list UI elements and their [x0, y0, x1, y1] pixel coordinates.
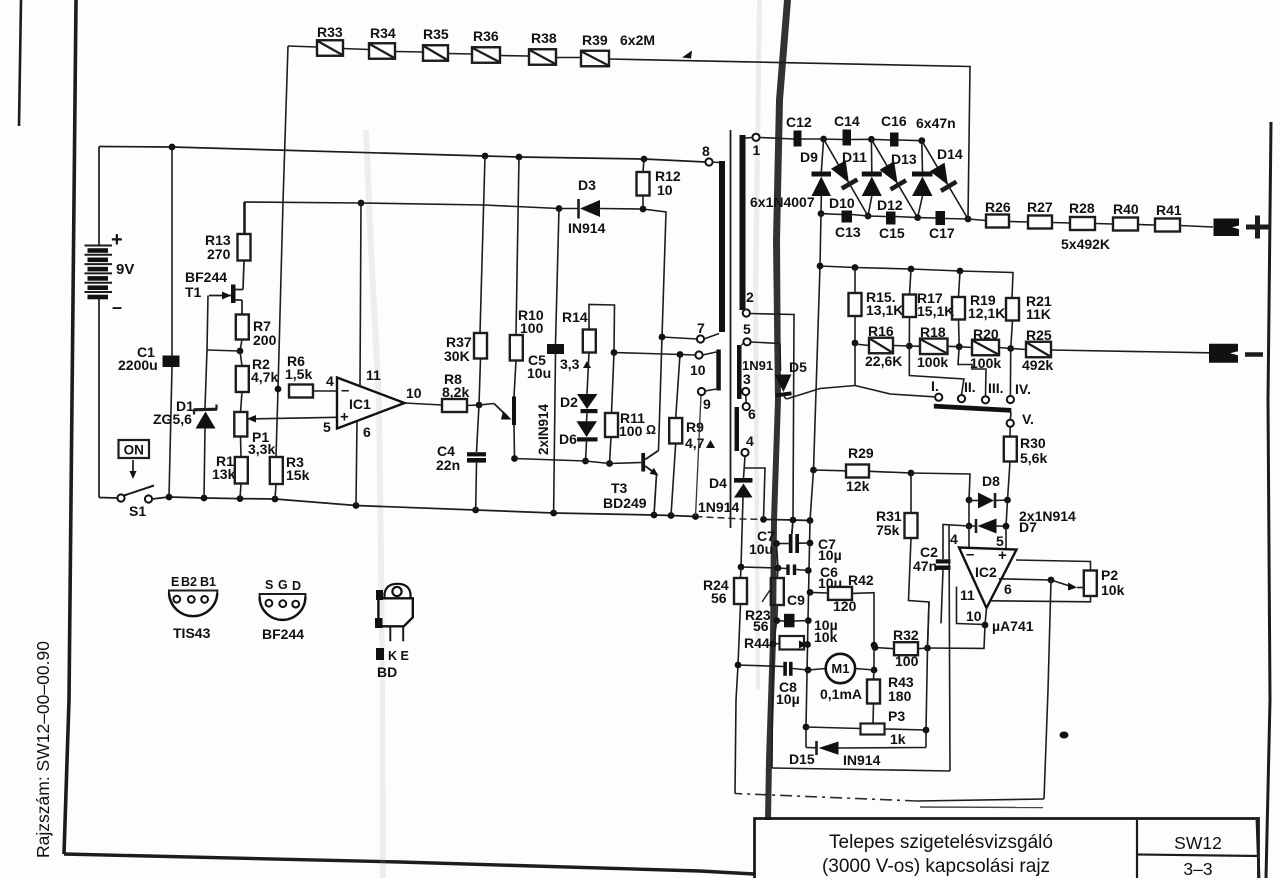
diode D2: [577, 353, 598, 414]
resistor R9 4,7: [669, 355, 715, 516]
diode D13 (diagonal): [871, 139, 917, 217]
D15 label: [789, 751, 881, 768]
potentiometer P3 1k: [861, 708, 906, 747]
pin 8: [702, 143, 713, 166]
node rail P3: [803, 724, 810, 731]
title text line 2: [822, 856, 1050, 877]
resistor R38: [500, 30, 557, 65]
wire battery- down: [98, 297, 100, 498]
svg-text:M1: M1: [831, 661, 849, 676]
C1 label: [118, 344, 158, 373]
svg-text:R25: R25: [1026, 327, 1052, 343]
svg-text:6x2M: 6x2M: [620, 32, 655, 48]
node bus R9: [668, 512, 675, 519]
svg-text:R20: R20: [973, 326, 999, 342]
potentiometer P1 3,3k: [234, 392, 337, 457]
svg-text:6x1N4007: 6x1N4007: [750, 194, 815, 210]
diode D15 IN914: [817, 741, 927, 755]
resistor R3 15k: [270, 454, 310, 499]
resistor R16 22,6K: [855, 323, 902, 369]
- output terminal: [1209, 344, 1238, 363]
svg-text:3: 3: [743, 371, 751, 387]
wire IC2 pin6: [999, 577, 1054, 584]
resistor R39: [556, 32, 609, 66]
resistor R43 180: [867, 670, 914, 724]
svg-text:D14: D14: [937, 146, 963, 162]
svg-text:6x47n: 6x47n: [916, 115, 956, 131]
wire R29 to junction: [869, 471, 911, 473]
diode D10 (vertical): [862, 139, 882, 216]
node R32 right: [924, 645, 931, 652]
wire ground bus: [152, 497, 696, 517]
D11 label: [842, 149, 867, 165]
node B3: [945, 216, 971, 223]
resistor R23 56: [745, 578, 784, 634]
node rail R29: [810, 467, 817, 474]
D13 label: [891, 151, 917, 167]
resistor R7 200: [236, 315, 277, 349]
transformer secondary winding 6-4: [735, 407, 740, 451]
D12 label: [877, 197, 903, 213]
wire pin2 to C7 column: [750, 314, 794, 535]
svg-text:R38: R38: [531, 30, 557, 46]
wire pin4 to D4: [744, 456, 746, 478]
svg-text:BF244: BF244: [185, 269, 227, 285]
6x2M label: [620, 32, 655, 48]
svg-text:10k: 10k: [814, 629, 838, 645]
svg-text:0,1mA: 0,1mA: [820, 686, 862, 702]
node rail M1: [805, 667, 812, 674]
svg-text:5: 5: [323, 419, 331, 435]
capacitor C8 10u: [783, 662, 808, 676]
wire D8-D7 left link: [968, 500, 970, 526]
IC1 pin11 label: [366, 367, 381, 383]
+ output label: [1246, 216, 1269, 239]
wire feedback loop right: [1044, 580, 1051, 799]
svg-text:180: 180: [888, 688, 912, 704]
svg-text:V.: V.: [1022, 411, 1034, 427]
bottom page border: [64, 854, 754, 874]
resistor R17 15,1K: [903, 269, 954, 346]
svg-text:R18: R18: [920, 324, 946, 340]
svg-text:R16: R16: [868, 323, 894, 339]
svg-text:4,7k: 4,7k: [251, 369, 278, 385]
svg-text:C15: C15: [879, 225, 905, 241]
TIS43 pin labels: [171, 575, 216, 589]
svg-text:IN914: IN914: [568, 220, 606, 236]
svg-text:22,6K: 22,6K: [865, 353, 902, 369]
svg-text:C16: C16: [881, 113, 907, 129]
wire R23 to C9: [773, 605, 780, 624]
resistor R40: [1095, 201, 1139, 231]
node rail R15 row: [817, 263, 824, 270]
resistor R1 13k: [212, 437, 248, 499]
IC2 pin5 label: [996, 533, 1004, 549]
svg-text:B1: B1: [200, 575, 216, 589]
wire IC2 output loop: [928, 587, 989, 649]
op-amp IC1: [337, 378, 405, 429]
capacitor C17: [918, 211, 955, 241]
IC1 pin6 label: [363, 424, 371, 440]
TIS43 label: [173, 625, 211, 641]
node bus pin9: [692, 513, 699, 520]
svg-text:2: 2: [746, 289, 754, 305]
wire feedback loop left: [735, 665, 738, 794]
wire C9 to R44: [770, 621, 777, 648]
svg-text:120: 120: [833, 598, 857, 614]
node R42/R32: [871, 642, 878, 670]
svg-text:R35: R35: [423, 26, 449, 42]
svg-text:R36: R36: [473, 28, 499, 44]
wire T2B1 to T3 base: [515, 459, 642, 464]
ON arrow: [130, 460, 137, 479]
diode D6: [577, 413, 598, 461]
R44 label: [744, 635, 770, 651]
svg-text:56: 56: [753, 618, 769, 634]
resistor R11 100: [605, 353, 656, 464]
wire IC1 pin11: [360, 203, 361, 387]
resistor R14 3,3k: [560, 305, 615, 373]
svg-text:G: G: [278, 578, 288, 592]
zener diode D1 ZG5,6: [194, 296, 218, 499]
diode D14 (diagonal): [922, 141, 968, 219]
wire divider tap to range I: [855, 386, 934, 397]
node bus R1: [237, 495, 244, 502]
BD249 pin labels: [388, 649, 409, 663]
D5 label: [789, 359, 807, 375]
wire IC1 pin6 to bus: [356, 422, 357, 506]
diode D5: [775, 375, 792, 400]
svg-text:ZG5,6: ZG5,6: [153, 411, 192, 427]
ink blob artifact: [1060, 732, 1069, 739]
svg-text:IC2: IC2: [975, 564, 997, 580]
D2 label: [560, 394, 578, 410]
diode D7: [966, 519, 1010, 534]
pin 1: [746, 134, 761, 158]
diode D4 1N914: [734, 478, 753, 498]
node bus T3 emitter: [651, 512, 658, 519]
transistor T2 (UJT) bar: [512, 397, 516, 426]
node R11 bottom: [606, 460, 613, 467]
node T2 B1: [511, 455, 518, 462]
D1 label: [153, 398, 194, 427]
svg-text:BF244: BF244: [262, 626, 304, 642]
capacitor C12: [786, 114, 812, 147]
svg-text:1: 1: [753, 142, 761, 158]
resistor R37 30K: [444, 156, 487, 405]
capacitor C5 10u: [527, 209, 564, 514]
op-amp IC2 (uA741): [959, 546, 1017, 608]
D7 label: [1019, 519, 1037, 535]
svg-text:P2: P2: [1101, 567, 1118, 583]
range contact III: [982, 380, 1004, 403]
package drawing TIS43: [169, 591, 217, 617]
svg-text:R44: R44: [744, 635, 770, 651]
wire C6 row: [738, 564, 787, 572]
svg-text:12,1K: 12,1K: [968, 305, 1005, 321]
node C1 top: [169, 144, 176, 151]
wire P3 row: [806, 727, 929, 734]
node divider top R17: [908, 266, 915, 273]
transistor T1 BF244 (JFET): [209, 261, 244, 315]
node R37 top: [482, 153, 489, 160]
svg-text:R33: R33: [317, 24, 343, 40]
wire top chain start: [288, 46, 317, 47]
node R12 bottom: [640, 206, 647, 213]
potentiometer R44 10k: [773, 636, 808, 650]
wire range III: [958, 347, 986, 396]
svg-text:56: 56: [711, 590, 727, 606]
wire D3 to R12: [600, 209, 666, 338]
wire D4 to C6 row: [741, 498, 743, 568]
svg-text:IV.: IV.: [1015, 381, 1031, 397]
svg-text:7: 7: [697, 320, 705, 336]
scan streak dark center: [765, 0, 791, 820]
svg-text:10: 10: [657, 182, 673, 198]
- output label: [1245, 352, 1263, 357]
range contact II: [958, 379, 976, 402]
svg-text:IC1: IC1: [349, 396, 371, 412]
svg-text:2xIN914: 2xIN914: [536, 403, 551, 455]
wire C16 to node A3: [899, 139, 922, 142]
C8 label: [776, 679, 800, 707]
svg-text:1N91: 1N91: [742, 358, 773, 373]
resistor R21 11K: [1006, 293, 1052, 349]
resistor R24 56: [703, 567, 747, 665]
diode D12 (vertical): [912, 141, 933, 218]
resistor R35: [395, 26, 449, 61]
node bus winding return: [760, 516, 767, 523]
transformer primary winding 8-7: [719, 161, 725, 332]
D3 label: [568, 177, 606, 236]
svg-text:µA741: µA741: [992, 618, 1034, 634]
wire R30 to D8: [1008, 462, 1011, 501]
wire rail to D3: [559, 208, 578, 210]
IC1 pin10 label: [406, 385, 422, 401]
svg-text:10: 10: [966, 608, 982, 624]
BD249 package label: [377, 664, 397, 680]
diode D9: [812, 139, 832, 214]
svg-text:D6: D6: [559, 431, 577, 447]
D9 label: [800, 149, 818, 165]
IC2 pin4 label: [950, 531, 958, 547]
wire ground bus left: [99, 497, 118, 500]
wire pin5 to P2 top: [1016, 560, 1091, 571]
svg-text:100: 100: [619, 423, 643, 439]
wire R31 to R32 column: [909, 538, 930, 648]
transformer secondary winding 1-2: [740, 135, 746, 310]
svg-text:6: 6: [748, 406, 756, 422]
svg-text:4,7: 4,7: [685, 435, 705, 451]
T3 label: [603, 480, 647, 511]
svg-text:9: 9: [703, 396, 711, 412]
resistor R33: [317, 24, 343, 56]
wire D5 to divider: [787, 386, 856, 400]
node R29/R31: [908, 470, 915, 477]
wire chain-to-R6 vertical: [276, 46, 288, 457]
resistor R8 8,2k: [442, 371, 469, 412]
svg-text:D12: D12: [877, 197, 903, 213]
wire pin1 to C12: [760, 138, 794, 140]
svg-text:12k: 12k: [846, 478, 870, 494]
battery 9V label: [116, 261, 134, 278]
package drawing BD249 (TO-220): [375, 584, 413, 660]
svg-text:D8: D8: [982, 473, 1000, 489]
svg-text:R27: R27: [1027, 199, 1053, 215]
BF244 package label: [262, 626, 304, 642]
svg-text:(3000 V-os) kapcsolási rajz: (3000 V-os) kapcsolási rajz: [822, 856, 1050, 877]
meter M1 0,1mA: [808, 654, 874, 702]
svg-text:13k: 13k: [212, 466, 236, 482]
svg-text:–: –: [112, 297, 122, 317]
svg-text:R42: R42: [848, 572, 874, 588]
resistor R34: [343, 25, 396, 59]
svg-text:10u: 10u: [749, 541, 773, 557]
pin 6: [743, 403, 756, 422]
pin 7: [662, 162, 719, 343]
wire feedback loop bottom (dashed): [735, 794, 1044, 802]
svg-text:6: 6: [1004, 581, 1012, 597]
resistor R36: [448, 28, 500, 63]
C7 label left: [749, 528, 775, 557]
node divider mid R20: [948, 343, 963, 350]
node R8 output: [476, 402, 483, 409]
svg-text:C9: C9: [787, 592, 805, 608]
capacitor C4 22n: [436, 405, 486, 510]
svg-text:S: S: [265, 578, 273, 592]
wire junction to D8: [911, 473, 970, 500]
link pin3-pin6: [745, 395, 748, 403]
right page edge line: [1266, 122, 1271, 878]
resistor R26 492K: [968, 199, 1011, 228]
resistor R6 1,5k: [285, 353, 337, 398]
wire C14 to node A2: [851, 138, 871, 140]
potentiometer P2 10k: [1084, 567, 1125, 598]
wire range II: [909, 346, 964, 395]
capacitor C6 10u: [786, 564, 842, 591]
wire +9V top rail: [99, 147, 706, 163]
ghost line above title block: [920, 806, 1043, 809]
svg-text:R39: R39: [582, 32, 608, 48]
svg-text:D9: D9: [800, 149, 818, 165]
svg-text:D2: D2: [560, 394, 578, 410]
svg-text:10: 10: [406, 385, 422, 401]
1N914 label for D5: [742, 358, 773, 373]
resistor R32 100: [875, 627, 928, 669]
transformer primary winding 10-9: [716, 350, 721, 391]
node R7 bottom: [207, 340, 243, 355]
wire R8 out: [467, 404, 479, 407]
capacitor C14: [824, 113, 860, 146]
node divider mid R18: [893, 343, 913, 350]
svg-text:6: 6: [363, 424, 371, 440]
IC2 pin10 label: [966, 608, 982, 624]
svg-text:Rajzszám: SW12–00–00.90: Rajzszám: SW12–00–00.90: [33, 641, 53, 858]
svg-text:C13: C13: [835, 224, 861, 240]
svg-text:IN914: IN914: [843, 752, 881, 768]
sheet code SW12: [1174, 833, 1222, 853]
svg-text:T3: T3: [611, 480, 628, 496]
capacitor C9 10u: [777, 614, 809, 628]
arrow artifact on top wire: [682, 51, 692, 59]
node B1: [852, 213, 871, 220]
node bus IC1 pin6: [353, 502, 360, 509]
svg-text:P3: P3: [888, 708, 905, 724]
wire T2 B1: [513, 425, 516, 459]
node R6 input: [275, 386, 282, 393]
D6 label: [559, 431, 577, 447]
node B0: [818, 210, 825, 217]
node rail C6: [805, 567, 812, 574]
D4 label: [698, 475, 739, 515]
resistor R15 13,1K: [849, 268, 904, 344]
svg-text:–: –: [966, 546, 974, 563]
svg-text:11K: 11K: [1026, 306, 1051, 322]
drawing number text (rotated): [33, 641, 53, 858]
svg-text:R32: R32: [893, 627, 919, 643]
capacitor C16: [871, 113, 906, 147]
6x1N4007 label: [750, 194, 815, 210]
svg-text:Telepes szigetelésvizsgáló: Telepes szigetelésvizsgáló: [829, 832, 1053, 853]
resistor R29 12k: [814, 445, 874, 494]
wire M1 row left: [735, 662, 784, 669]
wire chain to multiplier: [609, 59, 970, 219]
node rail C9: [805, 617, 812, 624]
capacitor C15: [868, 212, 905, 242]
svg-text:D3: D3: [578, 177, 596, 193]
IC1 pin4 label: [326, 373, 334, 389]
svg-text:C14: C14: [834, 113, 860, 129]
svg-text:8,2k: 8,2k: [442, 384, 469, 400]
pin 5: [742, 321, 752, 345]
6x47n label: [916, 115, 956, 131]
svg-text:10µ: 10µ: [818, 547, 842, 563]
capacitor C7 10u (left): [773, 521, 810, 553]
svg-text:+: +: [111, 229, 123, 251]
wire wiper to V contact: [1009, 412, 1012, 420]
svg-text:D10: D10: [829, 195, 855, 211]
battery B1 9V: [85, 246, 113, 300]
svg-text:B2: B2: [181, 575, 197, 589]
svg-text:5x492K: 5x492K: [1061, 236, 1110, 252]
BF244 pin labels: [265, 578, 301, 593]
resistor R30 5,6k: [1004, 427, 1048, 466]
IC1 pin5 label: [323, 419, 331, 435]
node rail C7: [807, 540, 814, 547]
wire T3 collector: [659, 337, 663, 451]
wire pin6 to P2 wiper: [1051, 580, 1084, 591]
svg-text:4: 4: [326, 373, 334, 389]
svg-text:Ω: Ω: [646, 423, 656, 437]
IC2 pin11 label: [960, 587, 975, 603]
node divider top R15: [852, 264, 859, 271]
pin 3: [742, 371, 751, 395]
C9 label: [787, 592, 838, 645]
svg-text:47n: 47n: [913, 558, 937, 574]
resistor R41: [1138, 202, 1182, 232]
svg-text:II.: II.: [964, 379, 976, 395]
wire oscillator rail: [245, 202, 559, 234]
title block box: [755, 819, 1260, 878]
ON box: [119, 440, 150, 458]
wire range IV: [1009, 349, 1011, 396]
svg-text:5: 5: [743, 321, 751, 337]
resistor R42 120: [810, 572, 874, 645]
wire ground bus right end: [764, 519, 811, 520]
node divider mid R25: [999, 345, 1014, 352]
svg-text:5: 5: [996, 533, 1004, 549]
wire pin4 branch to bus: [745, 468, 765, 519]
